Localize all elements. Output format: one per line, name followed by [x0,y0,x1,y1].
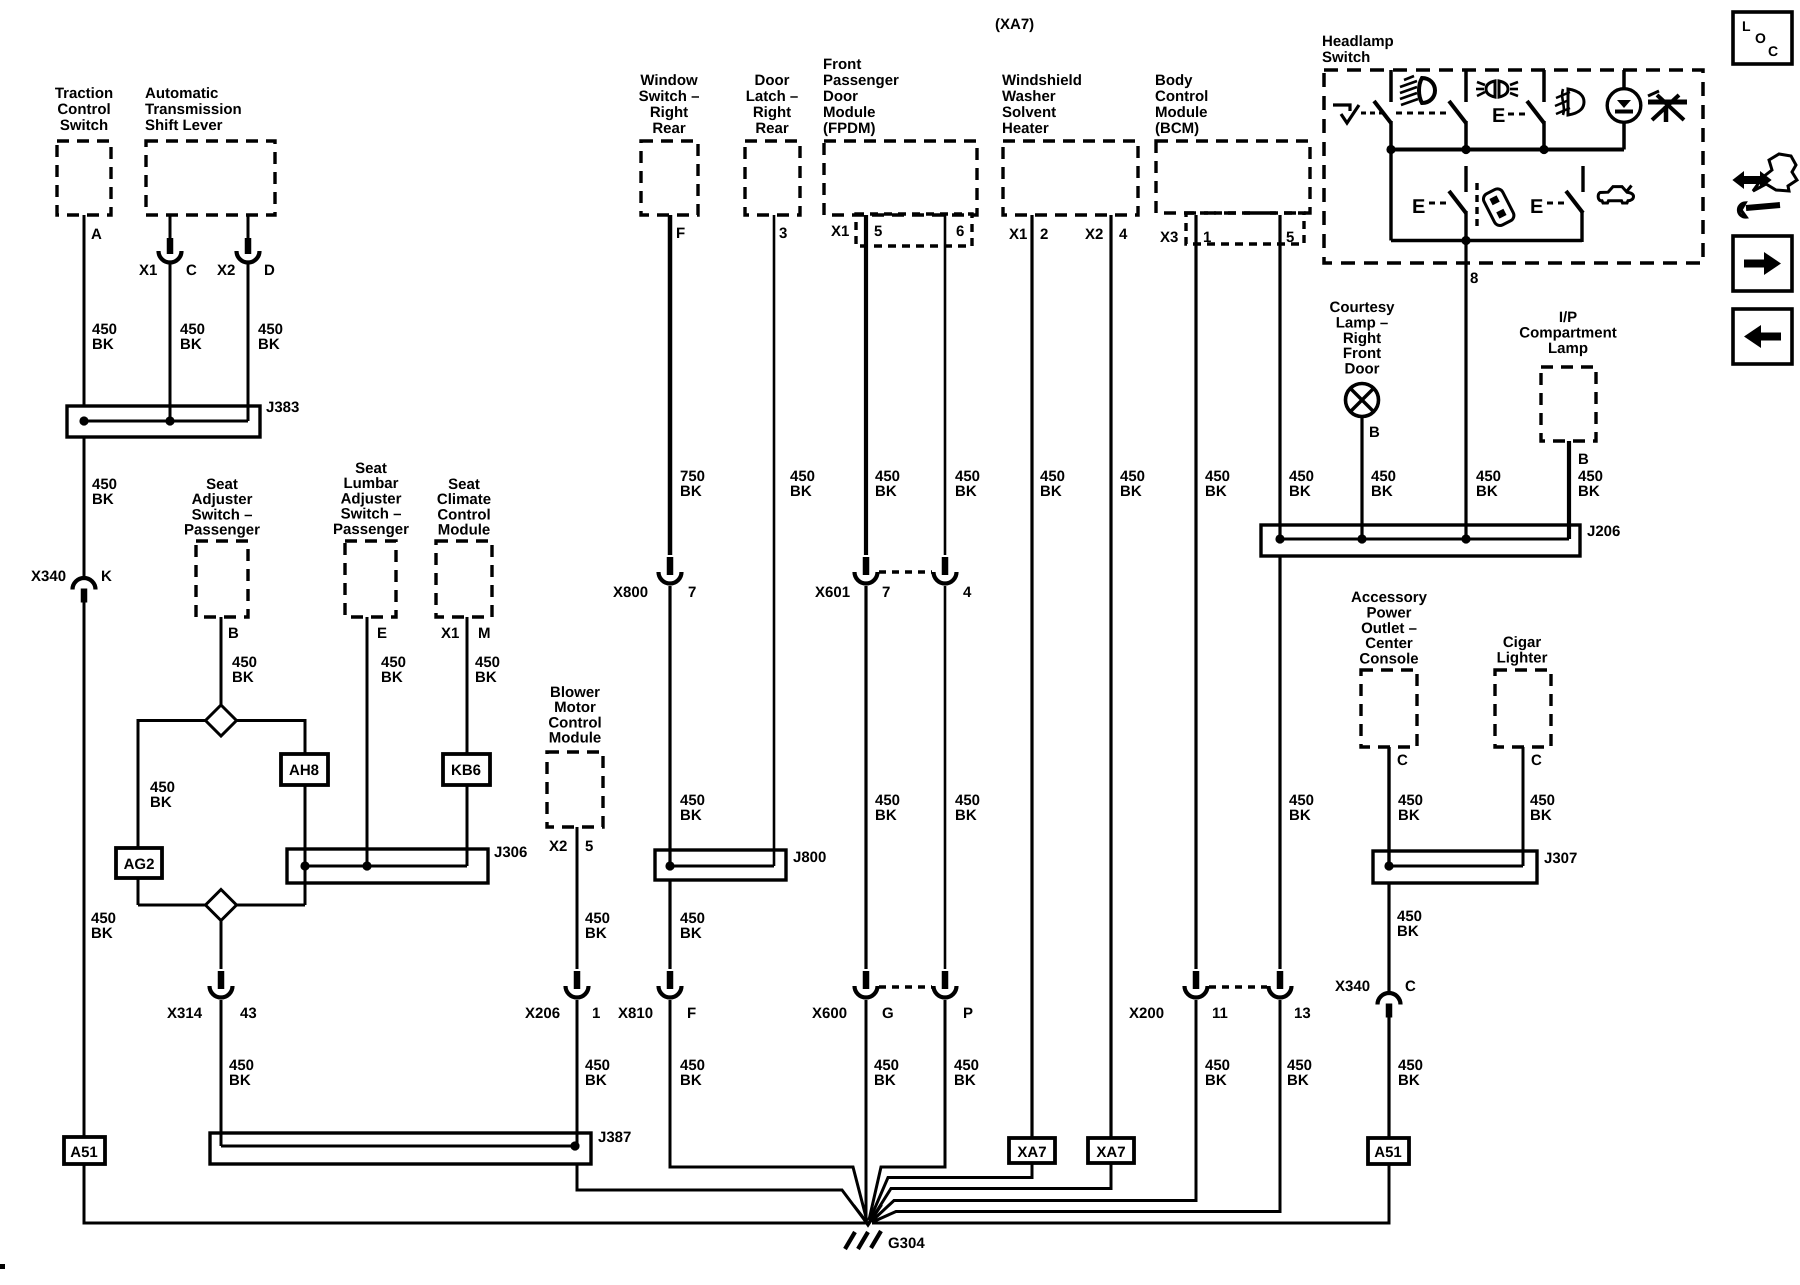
svg-text:X1: X1 [139,262,157,279]
component: Seat Climate Control Module [436,476,492,617]
fuse/circuit tag AG2 [116,848,162,878]
connector tag XA7 (washer heater X1 circuit) [1009,1138,1055,1163]
component: Headlamp Switch [1322,33,1703,263]
wire: X601-7 to X600-G (450 BK) [866,586,900,969]
wire: diamond to X314-43 [220,920,223,969]
headlamp switch: off-position terminal symbol [1333,105,1350,111]
svg-text:5: 5 [874,223,882,240]
svg-text:X1: X1 [441,625,459,642]
svg-text:XA7: XA7 [1017,1144,1046,1161]
svg-text:3: 3 [779,225,787,242]
component: Seat Lumbar Adjuster Switch - Passenger [333,460,409,617]
svg-text:J307: J307 [1544,850,1577,867]
svg-text:11: 11 [1212,1005,1228,1022]
headlamp switch: fog lamp icon [1555,89,1584,115]
headlamp switch: low beam headlamp icon [1400,76,1435,105]
svg-text:X206: X206 [525,1005,560,1022]
headlamp switch: trunk lamp switch stub [1581,166,1584,192]
svg-text:450BK: 450BK [680,1057,705,1089]
svg-text:450BK: 450BK [955,792,980,824]
wire: ATSL C to J383 (450 BK) [170,264,205,421]
BCM connector X3 pin row box [1160,213,1304,246]
svg-text:M: M [478,625,491,642]
wire: A51 right to G304 bottom run [872,1164,1389,1223]
svg-text:BlowerMotorControlModule: BlowerMotorControlModule [548,684,601,747]
svg-text:G: G [882,1005,894,1022]
wire: X810 to G304 (450 BK) [670,1000,867,1221]
svg-text:Switch: Switch [1322,49,1370,66]
splice diamond (top) [206,705,237,736]
wire: BCM X3-5 to J206 (450 BK) [1280,215,1314,539]
svg-text:X2: X2 [549,838,567,855]
svg-text:E: E [1412,196,1425,218]
component: Windshield Washer Solvent Heater [1002,72,1138,215]
splice pack J800 [655,849,826,880]
svg-text:6: 6 [956,223,964,240]
svg-text:450BK: 450BK [475,654,500,686]
connector X200 pin 13 (in-line) [1209,971,1311,1022]
svg-text:450BK: 450BK [1205,468,1230,500]
headlamp switch: lower loop wiring [1391,150,1582,246]
component: Window Switch - Right Rear [639,72,700,215]
connector X800 pin 7 (in-line) [613,557,696,601]
svg-text:X800: X800 [613,584,648,601]
headlamp switch: interior lamp switch blade [1449,191,1466,241]
svg-text:J206: J206 [1587,523,1620,540]
wire: WWSH X2-4 to XA7 (450 BK) [1085,215,1145,1138]
component: Body Control Module (BCM) [1155,72,1310,213]
svg-text:450BK: 450BK [680,792,705,824]
headlamp switch: terminal stub 1 [1389,70,1393,102]
headlamp switch: door-ajar dashed bar [1475,183,1478,228]
component: Blower Motor Control Module [547,684,603,827]
headlamp switch: dashed link switch1 to switch2 [1396,112,1448,115]
svg-text:450BK: 450BK [790,468,815,500]
svg-text:B: B [228,625,239,642]
headlamp switch: park lamp icon [1476,81,1518,97]
svg-text:450BK: 450BK [1398,792,1423,824]
wire: climate X1-M to KB6 (450 BK) [441,617,500,754]
wire: J383 to X340 K (450 BK) [84,437,117,577]
svg-text:KB6: KB6 [451,762,481,779]
svg-text:450BK: 450BK [585,910,610,942]
svg-text:450BK: 450BK [150,779,175,811]
page icon: LOC box [1733,12,1792,64]
wire: X340 K down to A51 (450 BK) [84,602,116,1137]
page icon: back arrow box [1733,309,1792,364]
wire: TCS pin A to J383 (450 BK) [84,215,117,406]
svg-text:450BK: 450BK [1289,792,1314,824]
svg-text:450BK: 450BK [875,792,900,824]
wire: door latch pin 3 to J800 (450 BK) [774,215,815,866]
svg-text:450BK: 450BK [1476,468,1501,500]
wire: cigar lighter pin C to J307 (450 BK) [1523,747,1555,866]
svg-text:F: F [676,225,685,242]
wire: X314 to J387 (450 BK) [221,1000,254,1146]
svg-text:43: 43 [240,1005,257,1022]
svg-text:A51: A51 [70,1144,98,1161]
wire: J387 output to G304 [577,1164,866,1222]
wire: right branch through AH8 and J306 [237,721,306,906]
headlamp switch: terminal stub 2 [1464,70,1468,102]
svg-text:450BK: 450BK [180,321,205,353]
svg-text:B: B [1369,424,1380,441]
svg-text:XA7: XA7 [1096,1144,1125,1161]
ground G304 [845,1205,925,1252]
wire: APO pin C to J307 (450 BK) [1389,747,1423,866]
svg-text:2: 2 [1040,226,1048,243]
svg-text:X600: X600 [812,1005,847,1022]
fuse/circuit tag KB6 [443,754,490,785]
connector X600 pin G (in-line) [812,971,894,1022]
svg-text:E: E [377,625,387,642]
svg-text:B: B [1578,451,1589,468]
svg-text:7: 7 [882,584,890,601]
svg-text:X340: X340 [31,568,66,585]
connector X206 pin 1 (in-line) [525,971,600,1022]
headlamp switch: panel illumination rheostat icon [1648,91,1687,122]
component: Cigar Lighter [1495,634,1551,747]
svg-text:X1: X1 [831,223,849,240]
headlamp switch: switch blade 3 [1527,101,1544,123]
svg-text:J387: J387 [598,1129,631,1146]
wire: A51 left along bottom to G304 [84,1164,866,1223]
svg-text:450BK: 450BK [1120,468,1145,500]
splice diamond (bottom) [206,890,237,921]
wire: X200-13 to G304 (450 BK) [873,1000,1313,1222]
svg-text:C: C [186,262,197,279]
wire: XA7-1 to G304 [870,1163,1033,1221]
svg-text:(XA7): (XA7) [995,16,1034,33]
wire: blower X2-5 to X206 (450 BK) [549,827,610,969]
headlamp switch: dashed link off to switch 1 [1361,112,1386,115]
headlamp switch: supply bus [1386,145,1624,154]
FPDM connector X1 pin row box [831,214,972,246]
connector X314 pin 43 (in-line) [167,971,257,1022]
wire: J800 to X810 (450 BK) [670,880,705,969]
wire: FPDM X1-6 to X601-4 (450 BK) [945,215,980,555]
svg-text:X314: X314 [167,1005,203,1022]
svg-text:C: C [1768,43,1778,59]
wire: window switch pin F to X800 (750 BK) [670,215,705,555]
svg-text:O: O [1755,30,1766,46]
svg-text:450BK: 450BK [1287,1057,1312,1089]
svg-text:4: 4 [963,584,972,601]
wire: J307 to X340-C (450 BK) [1389,883,1422,992]
svg-text:L: L [1742,18,1751,34]
component: Automatic Transmission Shift Lever [145,85,275,215]
splice pack J383 [67,399,299,437]
svg-text:450BK: 450BK [954,1057,979,1089]
svg-text:450BK: 450BK [1578,468,1603,500]
svg-text:1: 1 [592,1005,600,1022]
svg-text:A51: A51 [1374,1144,1402,1161]
svg-text:13: 13 [1294,1005,1311,1022]
svg-text:7: 7 [688,584,696,601]
wire: X600-G straight to G304 (450 BK) [866,1000,899,1223]
headlamp switch: terminal stub 3 [1542,70,1546,102]
svg-text:CigarLighter: CigarLighter [1497,634,1548,666]
connector tag XA7 (washer heater X2 circuit) [1088,1138,1134,1163]
svg-text:450BK: 450BK [1289,468,1314,500]
svg-text:1: 1 [1203,229,1211,246]
svg-text:P: P [963,1005,973,1022]
svg-text:X601: X601 [815,584,850,601]
headlamp switch: E-- label 2 [1412,196,1448,218]
svg-text:450BK: 450BK [229,1057,254,1089]
svg-text:J800: J800 [793,849,826,866]
svg-text:450BK: 450BK [1205,1057,1230,1089]
connector X601 pin 7 (in-line) [815,557,890,601]
svg-text:D: D [264,262,275,279]
connector X810 pin F (in-line) [618,971,696,1022]
svg-text:X810: X810 [618,1005,653,1022]
svg-text:8: 8 [1470,270,1478,287]
svg-text:450BK: 450BK [875,468,900,500]
svg-text:X340: X340 [1335,978,1370,995]
svg-text:450BK: 450BK [258,321,283,353]
headlamp switch: E-- label 1 [1492,105,1528,127]
component: Courtesy Lamp - Right Front Door (lamp symbol) [1329,299,1395,417]
wire: seat adjuster pin B to splice diamond (450 BK) [221,617,257,705]
svg-text:X1: X1 [1009,226,1027,243]
component: Accessory Power Outlet - Center Console [1351,589,1428,747]
svg-text:450BK: 450BK [680,910,705,942]
wire: X800 to J800 (450 BK) [670,586,705,866]
svg-text:450BK: 450BK [1397,908,1422,940]
splice pack J307 [1373,850,1577,883]
component: I/P Compartment Lamp [1519,309,1617,441]
svg-text:450BK: 450BK [232,654,257,686]
svg-text:5: 5 [585,838,593,855]
headlamp switch: interior lamp switch stub [1464,166,1467,192]
connector X1 pin C (in-line, ATSL left) [139,215,197,279]
wire: X340-C to A51 (450 BK) [1389,1017,1423,1138]
component: Door Latch - Right Rear [745,72,800,215]
connector X600 pin P (in-line) [879,971,973,1022]
svg-text:E: E [1492,105,1505,127]
svg-text:X2: X2 [217,262,235,279]
svg-text:A: A [91,226,102,243]
svg-text:5: 5 [1286,229,1294,246]
headlamp switch: switch blade 1 [1374,101,1391,123]
wire: X206 to J387 (450 BK) [577,1000,610,1146]
wire: BCM X3-1 to X200-11 (450 BK) [1196,215,1230,969]
connector X340 pin K (in-line) [31,568,112,603]
headlamp switch: instrument dimmer circle (diode) [1607,70,1641,150]
svg-text:J383: J383 [266,399,299,416]
svg-text:450BK: 450BK [955,468,980,500]
wire: ATSL D to J383 (450 BK) [248,264,283,421]
connector X601 pin 4 (in-line) [879,557,972,601]
fuse/circuit tag AH8 [281,754,328,785]
svg-text:450BK: 450BK [1371,468,1396,500]
svg-text:X2: X2 [1085,226,1103,243]
svg-text:450BK: 450BK [1040,468,1065,500]
wire: X200-11 to G304 (450 BK) [872,1000,1231,1222]
headlamp switch: tilted car (interior lamps) icon [1481,187,1516,228]
svg-text:750BK: 750BK [680,468,705,500]
svg-text:450BK: 450BK [1398,1057,1423,1089]
wire: WWSH X1-2 to XA7 (450 BK) [1009,215,1065,1138]
wire: courtesy lamp pin B to J206 (450 BK) [1362,416,1396,539]
svg-text:4: 4 [1119,226,1128,243]
wire: left branch through AG2 (450 BK) [138,721,206,906]
headlamp switch: switch blade 2 [1449,101,1466,123]
svg-text:TractionControlSwitch: TractionControlSwitch [55,85,113,134]
wire: KB6 to J306 [466,785,469,866]
connector X340 pin C (in-line) [1335,978,1416,1018]
svg-text:G304: G304 [888,1235,925,1252]
svg-text:C: C [1397,752,1408,769]
splice pack J306 [287,844,527,883]
wire: X601-4 to X600-P (450 BK) [945,586,980,969]
connector X2 pin D (in-line, ATSL right) [217,215,275,279]
component: Seat Adjuster Switch - Passenger [184,476,260,617]
wire: I/P lamp pin B to J206 (450 BK) [1569,441,1603,539]
svg-text:450BK: 450BK [874,1057,899,1089]
svg-text:J306: J306 [494,844,527,861]
svg-text:F: F [687,1005,696,1022]
component: Front Passenger Door Module (FPDM) [823,56,977,215]
page icon: forward arrow box [1733,236,1792,291]
wire: XA7-2 to G304 [871,1163,1112,1221]
svg-text:450BK: 450BK [92,476,117,508]
svg-text:450BK: 450BK [91,910,116,942]
splice pack J387 [210,1129,631,1164]
headlamp switch: E-- label 3 [1530,196,1564,218]
component: Traction Control Switch [55,85,113,215]
svg-text:E: E [1530,196,1543,218]
wire: J206 to X200-13 (450 BK) [1280,556,1314,969]
wire: headlamp switch pin 8 to J206 (450 BK) [1466,241,1501,540]
wire: lumbar pin E to J306 (450 BK) [367,617,406,866]
svg-text:K: K [101,568,112,585]
svg-text:AH8: AH8 [289,762,319,779]
svg-text:C: C [1405,978,1416,995]
wire: FPDM X1-5 to X601-7 (450 BK) [866,215,900,555]
svg-text:C: C [1531,752,1542,769]
wire: X600-P to G304 (450 BK) [869,1000,979,1220]
svg-text:X3: X3 [1160,229,1178,246]
svg-text:450BK: 450BK [585,1057,610,1089]
svg-text:Headlamp: Headlamp [1322,33,1394,50]
svg-text:AccessoryPowerOutlet –CenterCo: AccessoryPowerOutlet –CenterConsole [1351,589,1428,668]
svg-text:AG2: AG2 [124,856,155,873]
svg-text:450BK: 450BK [1530,792,1555,824]
ground distribution tag A51 (right) [1368,1138,1409,1164]
headlamp switch: trunk lamp switch blade [1566,191,1583,242]
connector X200 pin 11 (in-line) [1129,971,1228,1022]
svg-text:450BK: 450BK [92,321,117,353]
svg-text:X200: X200 [1129,1005,1164,1022]
page icon: navigation arrows with wrench [1734,154,1797,217]
artifact dot bottom-left [0,1264,5,1269]
ground distribution tag A51 (left) [64,1137,105,1164]
splice pack J206 [1261,523,1620,556]
svg-text:450BK: 450BK [381,654,406,686]
headlamp switch: sedan (courtesy) icon [1598,187,1633,203]
